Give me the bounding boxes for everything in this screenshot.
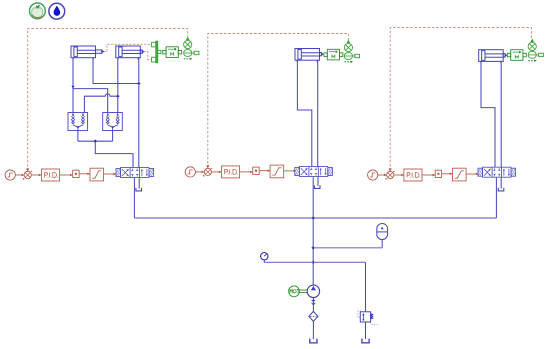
gain block K1 — [73, 170, 90, 177]
pressure gauge PG1 — [261, 253, 268, 260]
cylinder C4 rod — [503, 53, 507, 57]
PID controller PID3 — [404, 169, 435, 181]
proportional valve V3 — [478, 166, 516, 178]
gain block K3 — [435, 170, 452, 177]
arrow into summer S3 — [389, 168, 392, 171]
summing junction S2 — [203, 168, 222, 176]
cylinder C2 rod — [140, 50, 144, 54]
suction chevrons — [312, 300, 316, 305]
cylinder C1 — [71, 46, 96, 60]
wire valve V2 T port — [317, 178, 319, 187]
wire to accumulator — [313, 247, 382, 249]
cylinder C3 — [295, 49, 320, 63]
wire branch cap to block B2 left — [73, 89, 108, 113]
wire cyl C4 rod side to valve V3 port B — [500, 61, 502, 168]
junction node — [137, 82, 141, 86]
position sensor S3 — [528, 38, 543, 61]
speed/position meter box S2 — [324, 49, 343, 60]
PID controller PID1 — [41, 169, 72, 181]
wire block B2 outlet — [112, 131, 114, 142]
pump suction wire — [312, 298, 314, 312]
speed/position meter box S1 — [163, 47, 182, 58]
tank bracket under valve V3 — [498, 188, 504, 191]
signal generator G3 — [368, 170, 387, 180]
feedback signal wire S2 (dashed) — [208, 34, 349, 168]
saturation block SAT2 — [270, 165, 296, 178]
cylinder C2 — [116, 46, 141, 60]
valve block B2 — [103, 113, 123, 131]
feedback signal wire S1 (dashed) — [28, 28, 188, 171]
junction node — [311, 261, 315, 265]
mech link cylinder C2 rod to position pickup (dashed) — [144, 52, 152, 60]
wire block B1 outlet — [77, 131, 79, 142]
feedback signal wire S3 (dashed) — [390, 28, 531, 171]
wire cyl C3 cap to valve V2 port A — [297, 60, 311, 166]
valve block B1 — [68, 113, 88, 131]
drive shaft — [299, 290, 307, 293]
wire filter to tank — [312, 321, 314, 339]
pressure manifold wire — [133, 179, 135, 219]
speed/position meter box S3 — [507, 50, 526, 61]
summing junction S1 — [23, 171, 42, 179]
junction node — [311, 216, 315, 220]
wire cyl C1 cap to block B1 — [72, 58, 74, 113]
arrow into summer S2 — [206, 165, 209, 168]
proportional valve V1 — [116, 167, 154, 179]
signal generator G2 — [185, 167, 204, 177]
supply riser wire — [312, 178, 314, 286]
toolbar icon: hydraulic drop — [49, 3, 65, 19]
mech link cylinder C1 rod to position pickup (dashed) — [103, 44, 151, 51]
suction filter F1 — [309, 311, 318, 321]
reservoir tank T2 — [362, 339, 369, 343]
PID controller PID2 — [222, 166, 253, 178]
gain block K2 — [253, 167, 270, 174]
electric motor M1 — [289, 286, 300, 297]
wire blocks manifold — [78, 140, 113, 142]
saturation block SAT1 — [90, 168, 116, 181]
cylinder C3 rod — [320, 52, 324, 56]
position sensor S1 — [184, 37, 199, 60]
reservoir tank T1 — [310, 339, 317, 343]
junction node — [94, 139, 98, 143]
junction node — [116, 94, 120, 98]
wire manifold to valve V1 port A — [95, 141, 133, 167]
wire valve V3 T port — [500, 178, 502, 188]
position sensor S2 — [344, 40, 359, 63]
wire relief valve to tank — [365, 322, 367, 339]
wire cyl C1 rod side — [93, 58, 139, 84]
toolbar icon: apple (simulation mode) — [30, 3, 46, 19]
wire cyl C4 cap to valve V3 port A — [481, 61, 495, 168]
wire block B1 right to cyl C2 cap line (with hop) — [84, 94, 117, 113]
wire cyl C2 cap to block B2 right — [117, 58, 119, 113]
wire cyl C3 rod side to valve V2 port B — [317, 60, 319, 166]
junction node — [311, 246, 315, 250]
arrow into summer S1 — [26, 168, 29, 171]
proportional valve V2 — [295, 166, 333, 178]
wire cyl C2 rod to valve V1 port B — [138, 58, 140, 168]
flow arrow on cap wire — [72, 86, 75, 89]
saturation block SAT3 — [453, 168, 479, 181]
wire gauge branch — [263, 260, 265, 262]
hydraulic pump P1 — [307, 285, 319, 297]
wire valve V1 T port — [138, 179, 140, 189]
relief valve RV1 — [358, 311, 378, 325]
cylinder C4 — [479, 50, 504, 64]
cylinder C1 rod — [96, 50, 105, 54]
tank bracket under valve V2 — [314, 185, 320, 188]
accumulator A1 — [377, 224, 388, 240]
signal generator G1 — [5, 170, 24, 180]
position pickup bracket (mech junction) — [152, 41, 161, 63]
tank bracket under valve V1 — [136, 188, 142, 191]
summing junction S3 — [385, 171, 404, 179]
